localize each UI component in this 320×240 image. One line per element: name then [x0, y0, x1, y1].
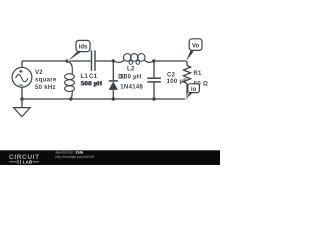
svg-text:square: square [35, 77, 57, 83]
svg-text:C2: C2 [167, 72, 176, 78]
svg-text:Vo: Vo [192, 43, 200, 49]
svg-text:L2: L2 [127, 66, 135, 72]
svg-text:50 kHz: 50 kHz [35, 85, 56, 91]
svg-text:500 µH: 500 µH [120, 75, 141, 81]
svg-text:V2: V2 [35, 70, 43, 76]
svg-text:LAB: LAB [23, 160, 33, 165]
svg-text:L1: L1 [81, 74, 89, 80]
svg-text:R1: R1 [193, 71, 202, 77]
svg-text:1N4148: 1N4148 [120, 85, 143, 91]
svg-text:C1: C1 [89, 74, 98, 80]
svg-text:http://circuitlab.com/c4t3n7t: http://circuitlab.com/c4t3n7t [56, 155, 95, 159]
svg-text:ids: ids [79, 45, 88, 51]
svg-text:io: io [191, 87, 197, 93]
svg-text:500 µH: 500 µH [81, 82, 102, 88]
svg-text:100 µF: 100 µF [167, 79, 188, 85]
svg-text:alembici18 / Zeta: alembici18 / Zeta [56, 151, 85, 155]
